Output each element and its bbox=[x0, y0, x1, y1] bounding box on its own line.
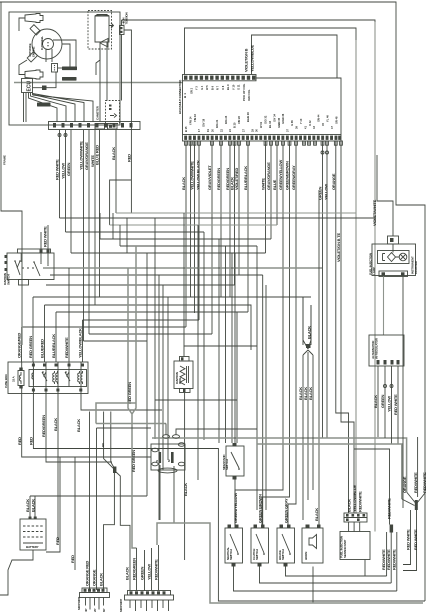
wires up from switch bar bbox=[41, 225, 48, 249]
wire WHITE bbox=[265, 141, 267, 253]
svg-text:VIOLET/WHITE: VIOLET/WHITE bbox=[372, 199, 377, 226]
svg-text:LAMP: LAMP bbox=[372, 267, 376, 275]
coil cylinder bbox=[95, 16, 109, 42]
svg-text:G/V 18: G/V 18 bbox=[202, 118, 206, 127]
svg-text:GREEN GRAY: GREEN GRAY bbox=[284, 498, 289, 523]
svg-text:BLACK: BLACK bbox=[308, 387, 313, 400]
label bar over fan bbox=[37, 103, 51, 107]
lamp circle X bbox=[399, 253, 407, 261]
svg-text:BLACK: BLACK bbox=[183, 483, 188, 496]
svg-text:BLACK: BLACK bbox=[76, 419, 81, 432]
svg-text:PICK UP COIL: PICK UP COIL bbox=[242, 83, 246, 101]
wire conn down bbox=[122, 30, 132, 213]
ENGINE bbox=[9, 12, 183, 130]
svg-text:BLACK: BLACK bbox=[99, 573, 104, 586]
wire pickup to label bbox=[58, 67, 63, 69]
RED GREEN gray merge bbox=[128, 246, 137, 548]
gray bus y437 bbox=[152, 438, 407, 492]
svg-text:GRAY/ORANGE: GRAY/ORANGE bbox=[84, 142, 89, 170]
svg-text:RED/WHITE: RED/WHITE bbox=[413, 472, 418, 493]
coil dashed box bbox=[88, 11, 112, 50]
exits below bbox=[22, 394, 151, 458]
IGNSW bbox=[3, 225, 54, 345]
ECU fan wires bbox=[24, 93, 27, 123]
svg-text:SWITCH: SWITCH bbox=[281, 549, 285, 560]
svg-text:Y 3: Y 3 bbox=[195, 86, 199, 90]
coil connector box bbox=[120, 26, 125, 35]
ignition coil component bbox=[174, 361, 193, 389]
pin boxes bbox=[185, 141, 343, 145]
wire plug1 bbox=[19, 18, 25, 31]
svg-text:WHITE: WHITE bbox=[261, 178, 266, 190]
red wires down bbox=[46, 457, 60, 552]
svg-text:GREEN: GREEN bbox=[66, 162, 71, 176]
wire unlabeled bbox=[190, 141, 192, 297]
ECU connector top strip bbox=[183, 75, 257, 81]
alternator exits bbox=[377, 366, 379, 437]
wire GREEN/BROWN bbox=[262, 141, 290, 528]
battery ground wire bbox=[0, 550, 33, 595]
wire YELLOW/BLACK bbox=[198, 141, 200, 320]
small box right of ECU bbox=[42, 86, 47, 91]
bottom tab bbox=[19, 280, 29, 286]
starter lugs bbox=[163, 435, 170, 439]
starter wires bbox=[160, 424, 257, 524]
svg-text:RED WHITE: RED WHITE bbox=[43, 226, 48, 247]
box left edge bbox=[182, 81, 184, 135]
svg-text:R/G 23: R/G 23 bbox=[224, 115, 228, 124]
wire top y20 to right bbox=[122, 20, 376, 205]
three black merge bbox=[303, 297, 313, 520]
gray main feed through switch bbox=[21, 252, 23, 345]
svg-text:B 6: B 6 bbox=[210, 85, 214, 90]
grid verticals lower bbox=[113, 213, 127, 253]
svg-text:GRAY/VIOLET: GRAY/VIOLET bbox=[207, 165, 212, 190]
svg-text:TENSION: TENSION bbox=[125, 13, 129, 25]
svg-text:G 11: G 11 bbox=[237, 84, 241, 90]
wire to lamp bbox=[377, 155, 393, 236]
wire pin1 up right bbox=[185, 28, 357, 205]
wire YELLOW bbox=[326, 141, 328, 438]
box outline to bottom strip bbox=[256, 78, 341, 135]
svg-text:SWITCH: SWITCH bbox=[7, 274, 11, 285]
svg-text:V/R 26: V/R 26 bbox=[237, 116, 241, 124]
distributor circle bbox=[32, 29, 62, 59]
svg-text:RED: RED bbox=[127, 154, 132, 162]
svg-text:HORN: HORN bbox=[304, 552, 308, 560]
svg-text:OR 48: OR 48 bbox=[334, 116, 338, 124]
coil wires down bbox=[100, 42, 107, 122]
svg-text:SWITCH: SWITCH bbox=[229, 549, 233, 560]
svg-text:BLACK: BLACK bbox=[346, 499, 351, 512]
svg-text:RED: RED bbox=[29, 437, 34, 445]
ECU box bbox=[22, 79, 33, 93]
svg-text:COIL: COIL bbox=[178, 377, 182, 384]
wire GRAY/VIOLET bbox=[211, 141, 213, 334]
svg-text:B 15: B 15 bbox=[184, 126, 188, 132]
battery box bbox=[20, 519, 46, 550]
svg-text:BLACK: BLACK bbox=[53, 418, 58, 431]
BOTTOM bbox=[0, 437, 427, 612]
svg-text:GREEN BROWN: GREEN BROWN bbox=[258, 494, 263, 523]
svg-text:GREEN: GREEN bbox=[380, 394, 385, 408]
svg-text:YELLOW/BLUE: YELLOW/BLUE bbox=[352, 485, 357, 512]
spark plug P2 bbox=[25, 70, 43, 79]
switch S2 bbox=[251, 528, 269, 563]
gray loop bbox=[157, 523, 423, 603]
engine connector strip bbox=[49, 122, 141, 130]
svg-text:BL/B 28: BL/B 28 bbox=[246, 112, 250, 122]
svg-text:BLUE/BLACK: BLUE/BLACK bbox=[243, 166, 248, 190]
svg-text:BATTERY: BATTERY bbox=[26, 545, 39, 549]
svg-text:RED WHITE: RED WHITE bbox=[413, 529, 418, 550]
wire ecu-smallbox bbox=[33, 72, 57, 88]
spark plug P1 bbox=[25, 14, 43, 23]
wire left frame to ignition switch bbox=[1, 2, 22, 252]
svg-text:BLU E RED: BLU E RED bbox=[95, 145, 100, 165]
svg-text:YELLOW/BLACK: YELLOW/BLACK bbox=[78, 328, 83, 358]
svg-text:4P: 4P bbox=[84, 609, 88, 612]
svg-text:RED WHITE: RED WHITE bbox=[406, 529, 411, 550]
svg-text:GREEN/YELLOW: GREEN/YELLOW bbox=[233, 493, 238, 523]
svg-text:BLUE: BLUE bbox=[272, 179, 277, 190]
engine box bbox=[9, 12, 120, 125]
svg-text:RED GREEN: RED GREEN bbox=[131, 450, 136, 472]
svg-text:2P: 2P bbox=[93, 609, 97, 612]
rotor dots bbox=[47, 42, 48, 43]
svg-text:IGN COIL: IGN COIL bbox=[247, 89, 251, 101]
svg-text:BL 9: BL 9 bbox=[226, 84, 230, 90]
svg-text:BLACK: BLACK bbox=[314, 508, 319, 521]
bottom strip pin labels above bbox=[184, 112, 338, 132]
coil bottom tab bbox=[101, 39, 108, 48]
canister arrow bbox=[110, 114, 117, 118]
svg-text:6P: 6P bbox=[102, 609, 106, 612]
FUSEBOX bbox=[4, 328, 425, 601]
svg-text:O 8: O 8 bbox=[221, 85, 225, 90]
pin squares top row bbox=[32, 364, 84, 367]
fuse 2 bbox=[32, 370, 34, 385]
svg-text:G/Y 34: G/Y 34 bbox=[272, 113, 276, 122]
RIGHTSIDE bbox=[298, 155, 418, 520]
wire GREEN bbox=[322, 141, 324, 438]
svg-text:B 25: B 25 bbox=[233, 122, 237, 128]
svg-text:ORANGE: ORANGE bbox=[92, 569, 97, 586]
svg-text:BLACK: BLACK bbox=[125, 567, 130, 580]
svg-text:YELLOW: YELLOW bbox=[324, 184, 329, 200]
svg-text:R/G 21: R/G 21 bbox=[215, 119, 219, 128]
label bar pickup bbox=[62, 67, 77, 71]
pins into box bbox=[21, 253, 48, 264]
gray bus2 bbox=[257, 444, 402, 499]
svg-text:W 31: W 31 bbox=[259, 121, 263, 128]
wire ORANGE bbox=[336, 141, 349, 513]
svg-text:B 1: B 1 bbox=[183, 93, 187, 98]
coil windings bbox=[180, 366, 189, 385]
svg-text:R 7: R 7 bbox=[216, 85, 220, 90]
wire pin14 up right bbox=[252, 35, 338, 78]
junction transistor bbox=[104, 412, 115, 470]
label bar 2 bbox=[62, 77, 77, 81]
svg-text:V 10: V 10 bbox=[231, 84, 235, 90]
svg-text:FUSE BOX: FUSE BOX bbox=[4, 374, 8, 388]
WIRELABELS bbox=[181, 141, 354, 528]
svg-text:RED/WHITE: RED/WHITE bbox=[387, 498, 392, 519]
svg-text:SENSOR UNIT: SENSOR UNIT bbox=[343, 539, 347, 558]
svg-text:VIOLET/GN B: VIOLET/GN B bbox=[244, 48, 249, 72]
svg-text:G 38: G 38 bbox=[290, 120, 294, 126]
fusebox outer bbox=[8, 362, 88, 394]
svg-text:SWITCH: SWITCH bbox=[255, 549, 259, 560]
engine harness wires down bbox=[59, 130, 61, 218]
svg-text:ORANGE: ORANGE bbox=[331, 173, 336, 190]
svg-text:BLACK: BLACK bbox=[25, 499, 30, 512]
svg-text:YL 46: YL 46 bbox=[325, 115, 329, 122]
svg-text:YELLOW/WHITE: YELLOW/WHITE bbox=[79, 141, 84, 170]
contact 1 bbox=[42, 372, 47, 381]
svg-text:YELLOW BLACK: YELLOW BLACK bbox=[196, 160, 201, 190]
svg-text:MIDPOINT: MIDPOINT bbox=[77, 597, 81, 610]
svg-text:BLACK: BLACK bbox=[307, 326, 312, 339]
svg-text:GREEN/BROWN: GREEN/BROWN bbox=[285, 161, 290, 190]
gray bus y423 bbox=[96, 403, 166, 424]
svg-text:GR 2: GR 2 bbox=[190, 87, 194, 94]
svg-text:YELLOW/BLUE: YELLOW/BLUE bbox=[250, 45, 255, 72]
svg-text:BLACK: BLACK bbox=[181, 177, 186, 190]
wire BLACK bbox=[185, 141, 187, 327]
fusebox feeds bbox=[22, 268, 83, 362]
svg-text:GREEN/GRAY: GREEN/GRAY bbox=[291, 165, 296, 190]
svg-text:RED/WHITE: RED/WHITE bbox=[358, 491, 363, 512]
svg-text:GREEN/YELLOW: GREEN/YELLOW bbox=[278, 160, 283, 190]
switch contacts bbox=[15, 261, 40, 276]
svg-text:W/ REGULATOR: W/ REGULATOR bbox=[374, 337, 378, 359]
svg-text:RED/WHITE: RED/WHITE bbox=[422, 472, 427, 493]
svg-text:VIOLET/RED: VIOLET/RED bbox=[234, 168, 239, 190]
switch S3 bbox=[277, 528, 295, 563]
svg-text:Y/B 16: Y/B 16 bbox=[193, 114, 197, 122]
svg-text:RED: RED bbox=[55, 537, 60, 545]
CENTER bbox=[90, 246, 407, 591]
relay inner box bbox=[29, 370, 87, 387]
gray feed wire bbox=[14, 82, 183, 84]
wire GREEN/YELLOW bbox=[235, 141, 283, 528]
fuse 1 bbox=[18, 371, 24, 386]
wire GREEN/GRAY bbox=[288, 141, 296, 528]
wire pickup coil bbox=[46, 49, 52, 62]
lamp top pin box bbox=[388, 236, 399, 244]
svg-text:RED/WHITE: RED/WHITE bbox=[64, 337, 69, 358]
plug cap 1 bbox=[30, 25, 40, 35]
wire BLUE bbox=[276, 141, 278, 225]
plug cap 2 bbox=[27, 52, 37, 62]
wire RED/GREEN bbox=[220, 141, 222, 297]
damper box bbox=[340, 532, 370, 560]
svg-text:RED/GREEN: RED/GREEN bbox=[216, 168, 221, 190]
wire plug2 bbox=[19, 60, 27, 75]
svg-text:YELLOW: YELLOW bbox=[147, 564, 152, 580]
stub pins bbox=[304, 141, 315, 145]
svg-text:RED: RED bbox=[70, 555, 75, 563]
svg-text:GREEN: GREEN bbox=[318, 186, 323, 200]
svg-text:ORANGE: ORANGE bbox=[402, 476, 407, 493]
svg-text:G/GR 36: G/GR 36 bbox=[281, 113, 285, 124]
svg-text:MIDPOINT: MIDPOINT bbox=[119, 599, 123, 612]
coil arrow bbox=[109, 23, 114, 28]
wires to battery bbox=[30, 496, 147, 519]
coil bottom wire BLACK bbox=[184, 393, 186, 561]
svg-text:ECU (MULTI CONNECTOR): ECU (MULTI CONNECTOR) bbox=[178, 80, 182, 114]
svg-text:ECU: ECU bbox=[27, 81, 33, 92]
svg-text:G/O 32: G/O 32 bbox=[264, 115, 268, 124]
svg-text:RED/WHITE: RED/WHITE bbox=[154, 559, 159, 580]
ignition switch box bbox=[7, 253, 54, 280]
svg-text:GN 44: GN 44 bbox=[317, 114, 321, 122]
svg-text:FRAME: FRAME bbox=[3, 155, 7, 165]
top bar bbox=[18, 249, 51, 253]
svg-text:BLACK: BLACK bbox=[373, 395, 378, 408]
wire RED/GREEN2 bbox=[229, 141, 231, 297]
dashed canister box bbox=[106, 101, 120, 124]
top strip pin labels bbox=[190, 83, 252, 101]
switch S4 horn bbox=[302, 528, 323, 563]
wire VIOLET/RED bbox=[238, 141, 240, 275]
svg-text:RED WHITE: RED WHITE bbox=[393, 394, 398, 415]
J2 junction bbox=[390, 525, 394, 533]
svg-text:BLACK: BLACK bbox=[111, 147, 116, 160]
svg-text:BLUE/RED: BLUE/RED bbox=[40, 339, 45, 358]
svg-text:Y 40: Y 40 bbox=[299, 118, 303, 124]
rotor circle bbox=[43, 39, 54, 50]
diamond bbox=[388, 253, 396, 262]
wire circle right drop bbox=[53, 40, 76, 67]
svg-text:RED: RED bbox=[17, 437, 22, 445]
left pins bbox=[5, 255, 8, 258]
svg-text:O 42: O 42 bbox=[308, 120, 312, 126]
lamp exits bbox=[383, 277, 385, 336]
bus wires horizontal bbox=[116, 212, 356, 214]
wire BLACK2 bbox=[234, 141, 236, 285]
wire YELLOW/WHITE bbox=[194, 141, 196, 313]
svg-text:ORANGE RED: ORANGE RED bbox=[85, 561, 90, 586]
ECUCONN bbox=[178, 22, 375, 532]
svg-text:G/BR 35: G/BR 35 bbox=[277, 117, 281, 128]
svg-text:RED/WHITE: RED/WHITE bbox=[391, 549, 396, 570]
svg-text:ORANGE/RED: ORANGE/RED bbox=[17, 333, 22, 358]
svg-text:GREEN: GREEN bbox=[140, 566, 145, 580]
svg-text:G 4: G 4 bbox=[200, 85, 204, 90]
svg-text:S: S bbox=[155, 460, 159, 462]
ECU connector bottom strip bbox=[183, 135, 342, 142]
svg-text:BL 33: BL 33 bbox=[268, 120, 272, 128]
svg-text:Y/W 14: Y/W 14 bbox=[188, 116, 192, 125]
contact 2 bbox=[65, 372, 70, 381]
lamp bottom strip bbox=[379, 271, 408, 277]
svg-text:W 5: W 5 bbox=[205, 85, 209, 90]
svg-text:RED GREEN: RED GREEN bbox=[28, 336, 33, 358]
alternator box bbox=[369, 335, 404, 366]
lamp box bbox=[372, 244, 416, 276]
switch S0 bbox=[226, 446, 244, 476]
svg-text:FLYWHEEL: FLYWHEEL bbox=[40, 36, 44, 50]
svg-text:VIOLET/GN B TE: VIOLET/GN B TE bbox=[336, 232, 341, 262]
svg-text:GRAY/ORANGE: GRAY/ORANGE bbox=[266, 162, 271, 190]
svg-text:RED/GREEN: RED/GREEN bbox=[132, 558, 137, 580]
svg-text:RED WHITE: RED WHITE bbox=[55, 159, 60, 180]
svg-text:YELLOW: YELLOW bbox=[61, 163, 66, 179]
BATTERY bbox=[20, 496, 147, 550]
coil 1 bbox=[53, 371, 55, 384]
svg-text:RED GREEN: RED GREEN bbox=[127, 382, 132, 404]
svg-text:RED/GREEN: RED/GREEN bbox=[41, 415, 46, 437]
starter motor bbox=[151, 444, 185, 470]
svg-text:CANISTER: CANISTER bbox=[96, 105, 100, 120]
svg-text:SWITCH: SWITCH bbox=[225, 459, 229, 470]
svg-text:BLUE/BLACK: BLUE/BLACK bbox=[51, 334, 56, 358]
svg-text:YELLOW: YELLOW bbox=[387, 396, 392, 412]
wire BLUE/BLACK bbox=[247, 141, 249, 312]
right side bottom bbox=[354, 449, 390, 525]
pickup coil bbox=[52, 64, 58, 73]
svg-text:CLUSTER: CLUSTER bbox=[414, 260, 418, 274]
switch S1 bbox=[225, 528, 243, 563]
coil 2 bbox=[78, 371, 80, 384]
wire VIOLET/GN B right bbox=[341, 141, 354, 513]
COIL bbox=[88, 11, 375, 214]
wire GRAY/ORANGE bbox=[270, 141, 272, 239]
